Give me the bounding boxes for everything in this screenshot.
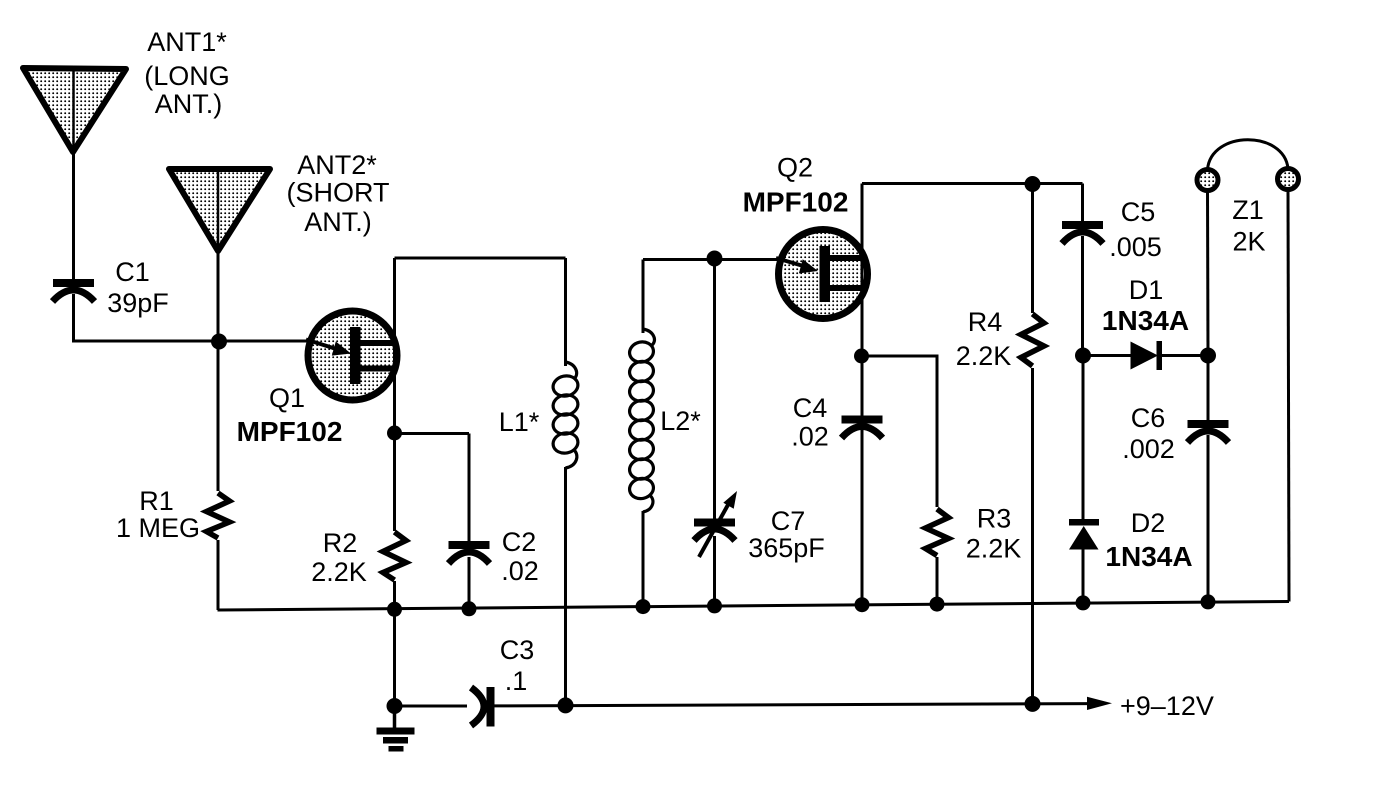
node D1 anode junction [1075, 348, 1091, 364]
svg-text:+9–12V: +9–12V [1120, 691, 1214, 721]
svg-text:MPF102: MPF102 [743, 187, 849, 218]
transistor Q1 MPF102 [306, 311, 397, 400]
inductor L2 [628, 260, 656, 607]
wire C2 top lead [468, 434, 471, 543]
wire R2 bottom to bus [393, 581, 396, 609]
svg-text:ANT1*: ANT1* [147, 27, 227, 57]
wire D1 cathode lead [1162, 354, 1208, 357]
junction R2 bus [387, 602, 402, 617]
svg-text:ANT.): ANT.) [155, 89, 223, 119]
svg-text:(SHORT: (SHORT [286, 178, 389, 208]
wire ANT1 lead down [72, 152, 75, 280]
wire R4 bottom to supply line [1031, 368, 1034, 704]
junction C4 bus [855, 597, 870, 612]
capacitor C3 [471, 687, 495, 727]
wire C6 bottom to bus [1207, 435, 1210, 602]
capacitor C5 [1062, 221, 1103, 244]
svg-text:R4: R4 [968, 307, 1003, 337]
capacitor C6 [1188, 420, 1229, 443]
wire C5 bottom to D1 node [1081, 236, 1084, 356]
svg-text:D2: D2 [1131, 508, 1166, 538]
antenna ANT2 [169, 169, 270, 251]
variable capacitor C7 [694, 491, 737, 557]
svg-text:C5: C5 [1121, 197, 1156, 227]
wire node A to Q1 gate [219, 340, 307, 343]
wire C7 bottom to bus [713, 536, 716, 606]
svg-text:.02: .02 [791, 422, 829, 452]
svg-text:C1: C1 [115, 257, 150, 287]
svg-text:MPF102: MPF102 [237, 416, 343, 447]
wire D2 bottom to bus [1082, 550, 1085, 603]
wire R3 bottom to bus [936, 557, 939, 604]
earphone Z1 [1197, 140, 1299, 191]
svg-text:1N34A: 1N34A [1105, 541, 1192, 572]
wire C7 top lead [713, 259, 716, 520]
svg-text:C3: C3 [500, 635, 535, 665]
svg-text:C4: C4 [793, 393, 828, 423]
wire C4 top lead [861, 356, 864, 417]
svg-text:2K: 2K [1232, 227, 1265, 257]
junction D2 bus [1076, 595, 1091, 610]
wire C5 top lead [1081, 184, 1084, 223]
svg-text:ANT.): ANT.) [304, 207, 372, 237]
wire ANT2 lead down [217, 251, 220, 341]
wire junction to C2 [395, 432, 470, 435]
svg-text:.02: .02 [501, 556, 539, 586]
resistor R1 [207, 493, 230, 538]
svg-text:C7: C7 [771, 506, 806, 536]
wire Q1 drain rail to L1 top [395, 257, 566, 260]
wire R1 bottom to ground bus [217, 540, 220, 610]
svg-text:L1*: L1* [499, 407, 540, 437]
wire L2 top rail to Q2 gate [643, 258, 778, 261]
wire Q2 drain rail top [862, 182, 1083, 185]
wire Q1 drain vertical [393, 258, 396, 431]
junction C7 bus [707, 598, 722, 613]
wire junction to R3 top [862, 356, 938, 507]
resistor R3 [926, 509, 949, 556]
svg-text:R1: R1 [139, 486, 174, 516]
wire Z1 left lead down [1206, 190, 1210, 356]
svg-text:1 MEG: 1 MEG [116, 513, 200, 543]
wire Z1 right lead down [1288, 189, 1289, 602]
junction C2 bus [462, 601, 477, 616]
junction L2 bus [636, 599, 651, 614]
transistor Q2 MPF102 [776, 230, 868, 319]
resistor R4 [1021, 314, 1044, 366]
resistor R2 [383, 532, 406, 580]
svg-text:39pF: 39pF [107, 288, 169, 318]
wire C6 top lead [1207, 356, 1210, 422]
svg-text:365pF: 365pF [748, 533, 825, 563]
svg-text:2.2K: 2.2K [966, 534, 1022, 564]
svg-text:2.2K: 2.2K [956, 341, 1012, 371]
svg-text:ANT2*: ANT2* [297, 150, 377, 180]
junction R4 supply [1025, 696, 1041, 712]
svg-text:R2: R2 [323, 528, 358, 558]
capacitor C2 [449, 541, 490, 564]
junction R3 bus [930, 597, 945, 612]
wire supply line [495, 704, 1091, 706]
svg-text:Z1: Z1 [1232, 195, 1264, 225]
wire C2 bottom to bus [468, 557, 471, 609]
svg-text:L2*: L2* [660, 406, 701, 436]
wire ground node to C3 [395, 705, 468, 708]
diode D2 1N34A [1069, 519, 1099, 550]
node C7 top junction [707, 251, 723, 267]
svg-text:R3: R3 [977, 504, 1012, 534]
diode D1 1N34A [1131, 341, 1163, 370]
wire C1 bottom to node A [74, 294, 220, 341]
svg-text:.005: .005 [1109, 232, 1162, 262]
svg-text:Q1: Q1 [269, 383, 305, 413]
wire junction down to R2 [393, 433, 396, 531]
inductor L1 [551, 258, 580, 706]
wire R4 top lead [1031, 184, 1034, 313]
wire D2 top lead [1082, 356, 1085, 521]
svg-text:1N34A: 1N34A [1102, 305, 1189, 336]
svg-text:2.2K: 2.2K [311, 557, 367, 587]
wire node A down to R1 [217, 341, 220, 491]
junction C6 bus [1201, 594, 1216, 609]
node R4 top junction [1025, 176, 1041, 192]
capacitor C1 [53, 279, 95, 302]
wire Q2 drain vertical [861, 184, 864, 357]
svg-text:C2: C2 [502, 527, 537, 557]
wire C4 bottom to bus [861, 430, 864, 605]
supply arrow +9-12V [1087, 697, 1112, 710]
wire R2 node down to ground point [393, 609, 396, 706]
junction L1 supply [558, 697, 574, 713]
node Q2 source junction [854, 349, 869, 364]
capacitor C4 [842, 416, 883, 439]
node supply line left junction [387, 698, 403, 714]
svg-text:D1: D1 [1129, 275, 1164, 305]
svg-text:.002: .002 [1122, 434, 1175, 464]
svg-text:.1: .1 [505, 666, 528, 696]
ground bus [218, 602, 1290, 611]
node D1 output junction [1200, 348, 1216, 364]
antenna ANT1 [23, 68, 126, 152]
node A junction [211, 334, 227, 350]
node Q1 source junction [387, 426, 402, 441]
svg-text:Q2: Q2 [777, 153, 813, 183]
wire D1 anode lead [1083, 354, 1131, 357]
svg-text:(LONG: (LONG [144, 61, 230, 91]
svg-text:C6: C6 [1131, 403, 1166, 433]
ground [377, 706, 415, 752]
